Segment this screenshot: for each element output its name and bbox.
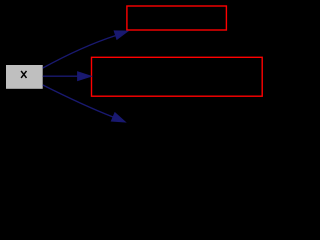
- node x: [6, 65, 43, 89]
- edge 1 wire (curved to top box): [43, 36, 116, 68]
- box middle (red): [92, 57, 263, 96]
- box top (red): [127, 6, 226, 30]
- edge 3 arrowhead: [111, 113, 125, 122]
- edge 2 arrowhead: [78, 72, 92, 81]
- edge 1 arrowhead: [114, 31, 128, 39]
- edge 3 wire (down-right): [43, 85, 113, 117]
- edge 2 wire (straight to middle box): [43, 75, 78, 77]
